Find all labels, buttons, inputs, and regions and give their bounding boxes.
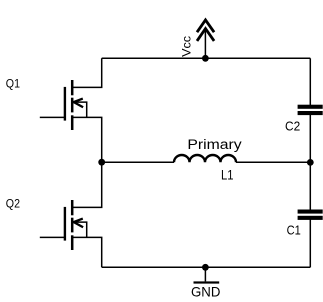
- node junction dot right (mid rail / right rail): [307, 159, 314, 166]
- Q2 body arrow head: [74, 219, 83, 228]
- Q1 source wire: [72, 117, 102, 162]
- node junction dot GND tap: [202, 264, 209, 271]
- Q1 channel segment top: [71, 80, 74, 95]
- Q2 channel segment top: [71, 200, 74, 215]
- svg-text:C1: C1: [287, 222, 301, 237]
- Q1 gate lead wire: [40, 116, 65, 118]
- node junction dot left (Q1 source / Q2 drain / mid rail): [98, 159, 105, 166]
- Vcc supply stub wire: [204, 30, 206, 59]
- capacitor C2: [298, 105, 323, 115]
- wire right rail middle (C2 to mid rail): [309, 115, 311, 163]
- Vcc supply arrow chevron upper: [197, 20, 214, 32]
- svg-text:Primary: Primary: [187, 137, 242, 152]
- Q1 drain wire: [72, 58, 102, 87]
- Q2 source wire: [72, 237, 102, 267]
- capacitor C1: [298, 210, 323, 220]
- svg-text:GND: GND: [191, 285, 221, 300]
- Q2 body arrow shaft: [74, 222, 87, 237]
- Q2 channel segment bottom: [71, 235, 74, 250]
- node junction dot Vcc tap: [202, 55, 209, 62]
- svg-text:Vcc: Vcc: [180, 36, 194, 57]
- transistor Q2: [40, 162, 102, 267]
- inductor L1: [174, 155, 236, 162]
- svg-text:L1: L1: [221, 167, 234, 182]
- Vcc supply arrow chevron lower: [197, 29, 214, 41]
- wire mid rail right segment: [236, 161, 310, 163]
- ground stub wire: [204, 267, 206, 281]
- svg-text:C2: C2: [285, 118, 300, 133]
- wire mid rail left segment: [102, 161, 174, 163]
- Q2 gate lead wire: [40, 236, 65, 238]
- Q1 body arrow shaft: [74, 102, 87, 117]
- Q2 gate bar: [64, 207, 66, 241]
- ground bar: [194, 281, 220, 283]
- Q2 channel segment middle: [71, 218, 74, 233]
- Q1 channel segment bottom: [71, 115, 74, 130]
- transistor Q1: [40, 58, 102, 162]
- wire bottom rail: [102, 266, 311, 268]
- Q1 channel segment middle: [71, 98, 74, 113]
- svg-text:Q2: Q2: [6, 196, 20, 210]
- Q1 gate bar: [64, 87, 66, 121]
- wire right rail upper (top rail to C2): [309, 58, 311, 105]
- wire top rail Vcc: [102, 57, 311, 59]
- wire right rail lower (mid rail to C1): [309, 162, 311, 210]
- svg-text:Q1: Q1: [6, 76, 20, 90]
- Q1 body arrow head: [74, 99, 83, 108]
- Q2 drain wire: [72, 162, 102, 207]
- wire right rail bottom (C1 to bottom rail): [309, 220, 311, 268]
